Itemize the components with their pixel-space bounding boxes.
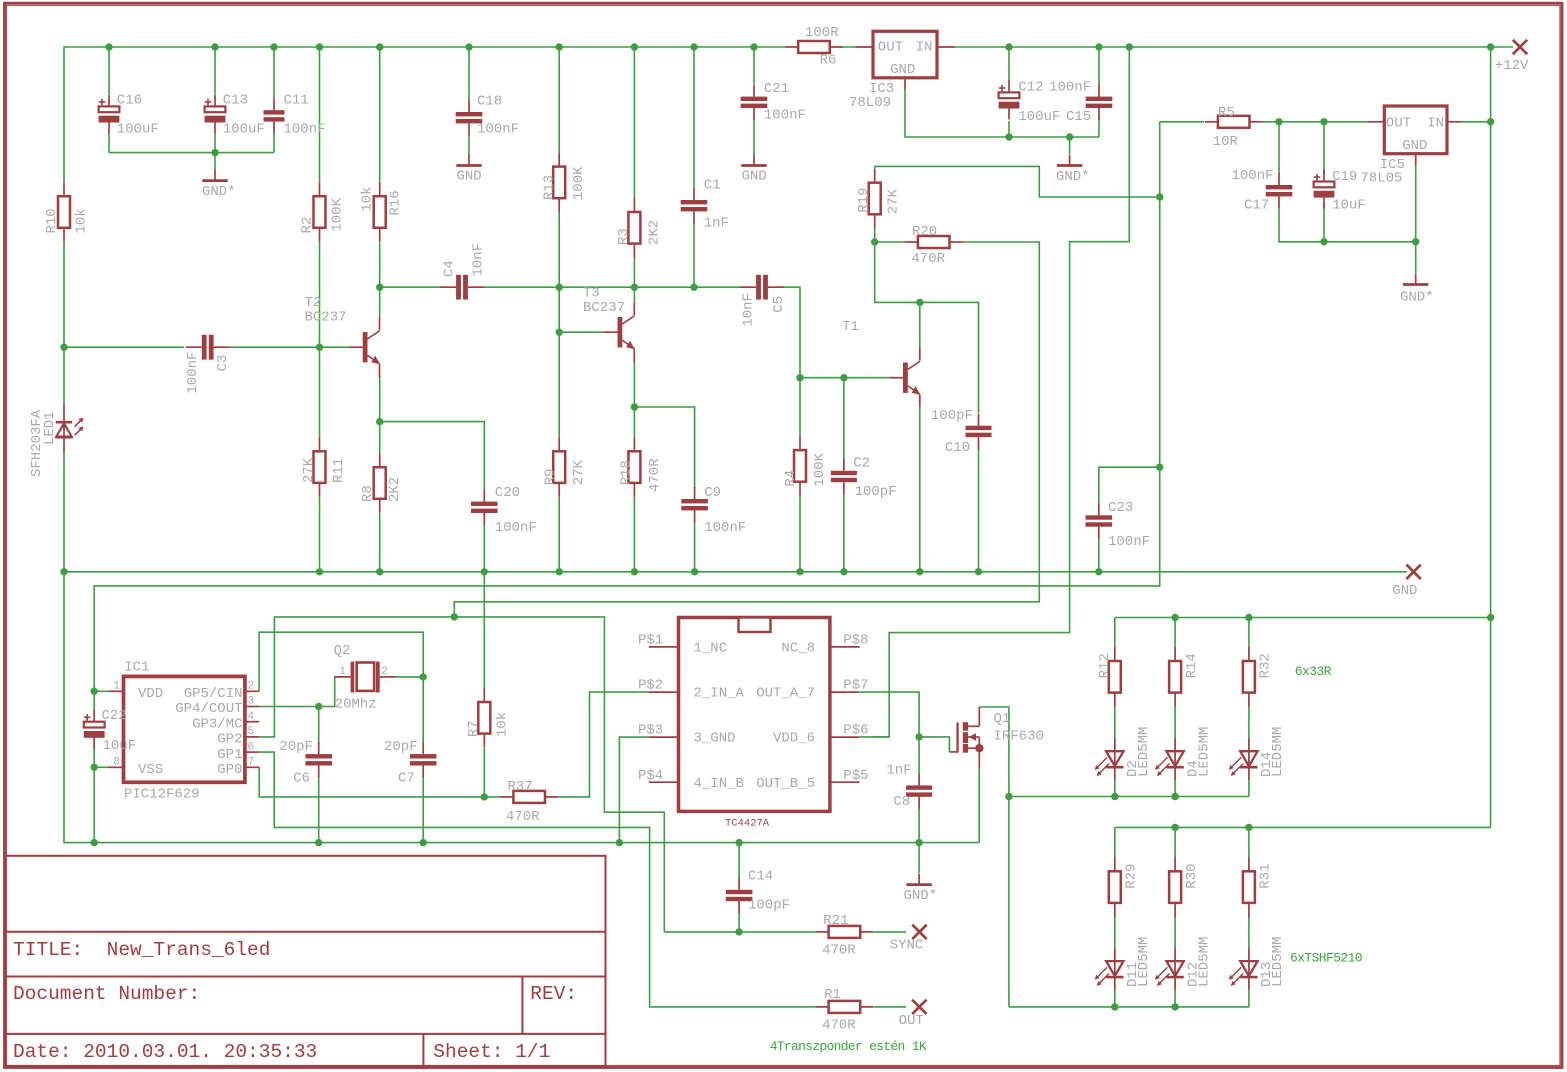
- svg-text:8: 8: [113, 757, 120, 769]
- svg-text:GP0: GP0: [217, 762, 242, 778]
- wire VSS to lower rail: [93, 767, 95, 842]
- svg-text:C17: C17: [1244, 198, 1269, 214]
- capacitor C18: [468, 100, 470, 112]
- svg-text:GND*: GND*: [1400, 290, 1434, 306]
- wire C17 top: [1278, 122, 1280, 174]
- junction dots lower rail: [91, 839, 98, 846]
- capacitor C5: [740, 286, 756, 288]
- resistor R6: [785, 46, 798, 48]
- svg-text:LED5MM: LED5MM: [1136, 937, 1152, 987]
- svg-text:SYNC: SYNC: [890, 938, 924, 954]
- wire GP2 net: [259, 617, 664, 932]
- wire GND* stub lower: [918, 843, 920, 873]
- svg-text:R2: R2: [300, 217, 316, 234]
- wire +12V top rail right: [839, 46, 856, 48]
- wire C19 top: [1323, 122, 1325, 175]
- wire P7 OUT_A net: [860, 692, 919, 737]
- LED D14: [1248, 738, 1250, 780]
- wire C15 top: [1098, 47, 1100, 85]
- LED D4: [1174, 738, 1176, 780]
- svg-text:100nF: 100nF: [764, 108, 806, 124]
- svg-text:100pF: 100pF: [931, 408, 973, 424]
- wire VDD pin: [94, 690, 109, 692]
- wire bank1 anode rail: [1115, 617, 1491, 619]
- wire C16-C13-C11 bottom bus: [109, 152, 274, 154]
- wire C14 top: [738, 843, 740, 879]
- svg-text:R12: R12: [1097, 653, 1113, 678]
- svg-text:C9: C9: [704, 485, 721, 501]
- capacitor C15: [1098, 85, 1100, 97]
- svg-text:R30: R30: [1184, 863, 1200, 888]
- svg-text:R37: R37: [508, 779, 533, 795]
- svg-text:100nF: 100nF: [495, 520, 537, 536]
- svg-text:Document Number:: Document Number:: [13, 983, 200, 1005]
- LED LED1 (SFH203FA photodiode): [63, 405, 65, 439]
- wire R8 bottom: [379, 513, 381, 572]
- svg-text:R14: R14: [1184, 653, 1200, 678]
- svg-text:20Mhz: 20Mhz: [335, 697, 377, 713]
- svg-text:R8: R8: [360, 485, 376, 502]
- svg-text:C22: C22: [102, 708, 127, 724]
- capacitor C3: [186, 346, 202, 348]
- svg-text:1nF: 1nF: [704, 216, 729, 232]
- junction dots T1: [796, 374, 803, 381]
- svg-text:470R: 470R: [822, 1018, 856, 1034]
- svg-text:3: 3: [248, 696, 255, 708]
- svg-text:P$7: P$7: [843, 678, 868, 694]
- wire bank1 column 1: [1114, 618, 1116, 649]
- junction dot emitter taps: [376, 418, 383, 425]
- junction dots main rail: [60, 568, 67, 575]
- capacitor C17: [1278, 173, 1280, 185]
- capacitor C10: [978, 414, 980, 426]
- resistor R7: [483, 688, 485, 702]
- svg-text:R29: R29: [1124, 863, 1140, 888]
- svg-text:20pF: 20pF: [279, 739, 313, 755]
- svg-text:1: 1: [113, 681, 120, 693]
- wire R9 bottom: [558, 497, 560, 572]
- wire VSS pin: [94, 766, 108, 768]
- svg-text:100nF: 100nF: [704, 520, 746, 536]
- wire +9V top rail left: [64, 47, 786, 182]
- svg-text:GND: GND: [1392, 583, 1417, 599]
- LED D12: [1174, 948, 1176, 990]
- wire T3 base riser: [558, 287, 560, 332]
- capacitor C22 (polarized): [93, 710, 95, 722]
- wire Q2 pin2: [396, 676, 424, 678]
- svg-text:LED1: LED1: [42, 411, 58, 445]
- junction dots bank2: [1171, 824, 1178, 831]
- resistor R14: [1174, 647, 1176, 661]
- svg-text:GP3/MC: GP3/MC: [192, 716, 242, 732]
- capacitor C11: [273, 98, 275, 110]
- wire R37 to IN_A: [558, 692, 649, 797]
- svg-text:T3: T3: [583, 286, 600, 302]
- transistor T2: [350, 346, 363, 348]
- LED D13: [1248, 948, 1250, 990]
- svg-text:470R: 470R: [911, 251, 945, 267]
- svg-text:C13: C13: [223, 93, 248, 109]
- wire C12 top: [1008, 47, 1010, 81]
- junction dot T3 base: [556, 329, 563, 336]
- wire bank2 column 1: [1114, 827, 1116, 858]
- wire C20 bottom: [483, 524, 485, 572]
- junction dots collector rail: [376, 284, 383, 291]
- wire R4 bottom: [799, 496, 801, 572]
- wire OUT right: [874, 1006, 907, 1008]
- svg-text:Q1: Q1: [994, 711, 1011, 727]
- wire R3 top: [633, 47, 635, 198]
- wire IC5 IN: [1461, 121, 1491, 123]
- resistor R10: [63, 182, 65, 196]
- capacitor C16 (polarized): [108, 94, 110, 106]
- transistor T3: [605, 331, 618, 333]
- svg-text:1nF: 1nF: [886, 763, 911, 779]
- transistor T1: [890, 377, 903, 379]
- svg-text:OUT: OUT: [1386, 116, 1411, 132]
- svg-text:PIC12F629: PIC12F629: [124, 787, 200, 803]
- resistor R21: [816, 931, 829, 933]
- svg-text:C6: C6: [293, 771, 310, 787]
- svg-text:100nF: 100nF: [477, 122, 519, 138]
- svg-text:4_IN_B: 4_IN_B: [694, 776, 744, 792]
- svg-text:NC_8: NC_8: [781, 641, 815, 657]
- wire C7 riser: [422, 677, 424, 743]
- wire R3 bottom: [633, 257, 635, 287]
- wire R7 top: [483, 572, 485, 688]
- wire R19 top net: [874, 166, 876, 168]
- svg-text:470R: 470R: [647, 458, 663, 492]
- svg-text:78L09: 78L09: [849, 95, 891, 111]
- pin +12V: [1513, 40, 1527, 54]
- svg-text:10nF: 10nF: [471, 243, 487, 277]
- wire C21 top: [753, 47, 755, 84]
- wire T2 collector: [379, 287, 381, 317]
- wire R16 bottom: [379, 242, 381, 287]
- svg-text:10k: 10k: [73, 208, 89, 233]
- svg-text:GND*: GND*: [202, 184, 236, 200]
- capacitor C13 (polarized): [214, 94, 216, 106]
- wire C8 bottom: [918, 808, 920, 843]
- svg-text:27K: 27K: [301, 457, 317, 483]
- wire C7 bottom: [422, 777, 424, 843]
- wire R5 left: [1160, 121, 1204, 123]
- svg-text:C12: C12: [1018, 80, 1043, 96]
- pin GND: [1406, 565, 1420, 579]
- wire T1 emitter: [919, 408, 921, 572]
- svg-text:C5: C5: [771, 296, 787, 313]
- wire C6 riser: [318, 707, 320, 744]
- svg-text:100nF: 100nF: [1232, 168, 1274, 184]
- svg-text:2K2: 2K2: [387, 477, 403, 502]
- svg-text:100pF: 100pF: [855, 484, 897, 500]
- svg-text:IN: IN: [1427, 116, 1444, 132]
- svg-text:GP4/COUT: GP4/COUT: [175, 701, 242, 717]
- svg-text:C19: C19: [1332, 169, 1357, 185]
- resistor R16: [379, 182, 381, 196]
- wire Q1 source: [978, 768, 980, 843]
- svg-text:LED5MM: LED5MM: [1196, 937, 1212, 987]
- svg-text:C15: C15: [1066, 109, 1091, 125]
- resistor R19: [874, 169, 876, 183]
- IC IC3 voltage regulator 78L09: [873, 31, 937, 78]
- junction dots bank1: [1171, 614, 1178, 621]
- wire C10 bottom: [978, 447, 980, 572]
- wire bank2 column 3: [1248, 827, 1250, 858]
- junction dots top rail: [105, 43, 112, 50]
- wire C23 link: [1099, 467, 1160, 505]
- svg-text:100R: 100R: [805, 25, 839, 41]
- wire SYNC right: [874, 931, 907, 933]
- wire T1 collector: [919, 302, 921, 347]
- svg-text:10uF: 10uF: [1332, 198, 1366, 214]
- svg-text:20pF: 20pF: [384, 739, 418, 755]
- resistor R3: [633, 198, 635, 212]
- wire bank2 column 2: [1174, 827, 1176, 858]
- svg-text:C10: C10: [945, 440, 970, 456]
- wire C16 top: [108, 47, 110, 94]
- svg-text:R16: R16: [388, 190, 404, 215]
- wire T3 emitter to R18: [633, 362, 635, 437]
- svg-text:C8: C8: [893, 794, 910, 810]
- IC IC2 TC4427A driver: [679, 618, 830, 812]
- svg-text:BC237: BC237: [305, 310, 347, 326]
- svg-text:470R: 470R: [506, 809, 540, 825]
- wire T3 base: [559, 331, 608, 333]
- svg-text:2K2: 2K2: [647, 220, 663, 245]
- wire emitter tap to C20: [380, 422, 485, 490]
- wire C15 bottom: [1098, 118, 1100, 137]
- transistor Q1 (IRF630 MOSFET): [949, 751, 957, 753]
- IC IC1 PIC12F629: [124, 676, 245, 782]
- capacitor C19 (polarized): [1323, 170, 1325, 182]
- svg-text:R13: R13: [542, 175, 558, 200]
- resistor R12: [1114, 647, 1116, 661]
- ground GND*: [1069, 155, 1071, 166]
- wire C9 bottom: [694, 522, 696, 572]
- wire collector rail y287: [380, 286, 450, 288]
- wire C1 bottom: [693, 222, 695, 288]
- svg-text:3_GND: 3_GND: [694, 731, 736, 747]
- svg-text:IN: IN: [916, 40, 933, 56]
- svg-text:2: 2: [381, 666, 388, 678]
- svg-text:R5: R5: [1218, 105, 1235, 121]
- capacitor C14: [738, 878, 740, 890]
- wire C1 top: [693, 47, 695, 188]
- wire C2 bottom: [843, 493, 845, 572]
- svg-text:100nF: 100nF: [185, 352, 201, 394]
- wire Q1 gate link: [919, 737, 949, 752]
- svg-text:100uF: 100uF: [117, 121, 159, 137]
- svg-text:C3: C3: [215, 355, 231, 372]
- wire GP4 net: [259, 677, 336, 707]
- capacitor C8: [918, 773, 920, 785]
- capacitor C21: [753, 85, 755, 97]
- wire C2 top: [843, 378, 845, 459]
- svg-text:GND: GND: [890, 62, 915, 78]
- wire R13 bottom: [558, 212, 560, 287]
- svg-text:C2: C2: [853, 456, 870, 472]
- wire C17 bottom: [1279, 209, 1416, 242]
- wire base bus C3 T2: [64, 346, 184, 348]
- svg-text:Date: 2010.03.01. 20:35:33: Date: 2010.03.01. 20:35:33: [13, 1041, 317, 1063]
- wire C23 bottom: [1098, 537, 1100, 572]
- wire R18 bottom: [633, 497, 635, 572]
- svg-text:LED5MM: LED5MM: [1270, 727, 1286, 777]
- wire +12V drop: [873, 47, 1129, 737]
- IC IC5 voltage regulator 78L05: [1384, 106, 1447, 154]
- svg-text:OUT: OUT: [899, 1013, 924, 1029]
- svg-text:REV:: REV:: [530, 983, 577, 1005]
- wire R9 top: [558, 332, 560, 437]
- wire bank2 cathode rail: [1009, 1006, 1249, 1008]
- wire C18 top: [468, 47, 470, 100]
- svg-text:10k: 10k: [360, 187, 376, 212]
- wire bank1 column 3: [1248, 618, 1250, 649]
- wire C8 top: [918, 737, 920, 774]
- svg-text:GND: GND: [742, 169, 767, 185]
- svg-text:OUT_B_5: OUT_B_5: [756, 776, 815, 792]
- wire 5V vertical: [94, 122, 1160, 692]
- svg-text:100uF: 100uF: [1018, 109, 1060, 125]
- junction dots 5V net: [1156, 193, 1163, 200]
- svg-text:R7: R7: [466, 720, 482, 737]
- ground GND: [468, 155, 470, 166]
- svg-text:C18: C18: [477, 94, 502, 110]
- resistor R29: [1114, 857, 1116, 871]
- resistor R8: [379, 453, 381, 467]
- wire +12V right column: [1490, 47, 1492, 827]
- svg-text:6: 6: [248, 741, 255, 753]
- junction dots R5 line: [1275, 118, 1282, 125]
- wire LED1 bottom: [63, 453, 65, 572]
- wire IC5 GND: [1415, 166, 1417, 273]
- svg-text:C23: C23: [1108, 500, 1133, 516]
- svg-text:T1: T1: [842, 319, 859, 335]
- wire R11 top: [319, 347, 321, 437]
- wire C13 top: [214, 47, 216, 94]
- wire C11 bottom: [273, 133, 275, 153]
- wire C19 bottom: [1323, 205, 1325, 242]
- pin SYNC: [912, 925, 926, 939]
- resistor R18: [633, 437, 635, 451]
- svg-text:GND*: GND*: [1056, 169, 1090, 185]
- wire bank1 cathode rail: [1009, 796, 1249, 798]
- svg-text:R32: R32: [1258, 653, 1274, 678]
- svg-text:C16: C16: [117, 93, 142, 109]
- svg-text:C7: C7: [398, 771, 415, 787]
- svg-text:P$4: P$4: [638, 768, 663, 784]
- svg-text:100K: 100K: [812, 452, 828, 486]
- svg-text:P$1: P$1: [638, 633, 663, 649]
- capacitor C9: [694, 487, 696, 499]
- wire C13 bottom: [214, 134, 216, 153]
- svg-text:100K: 100K: [330, 197, 346, 231]
- svg-text:GND*: GND*: [904, 888, 938, 904]
- svg-text:IC1: IC1: [124, 659, 149, 675]
- svg-text:R1: R1: [824, 987, 841, 1003]
- svg-text:OUT: OUT: [878, 40, 903, 56]
- svg-text:10nF: 10nF: [741, 293, 757, 327]
- junction dot C19 C17 bus: [1320, 238, 1327, 245]
- svg-text:C11: C11: [284, 93, 309, 109]
- capacitor C20: [483, 490, 485, 502]
- capacitor C1: [693, 188, 695, 200]
- svg-text:27K: 27K: [886, 188, 902, 214]
- svg-text:VDD: VDD: [138, 686, 163, 702]
- svg-text:5: 5: [248, 726, 255, 738]
- svg-text:C1: C1: [704, 178, 721, 194]
- svg-text:GND: GND: [1402, 138, 1427, 154]
- svg-text:P$6: P$6: [843, 723, 868, 739]
- wire R2 top: [319, 47, 321, 182]
- svg-text:VSS: VSS: [138, 762, 163, 778]
- svg-text:P$2: P$2: [638, 678, 663, 694]
- resistor R9: [558, 437, 560, 451]
- wire GND rail to lower: [64, 572, 979, 843]
- svg-text:R4: R4: [783, 470, 799, 487]
- wire C6 bottom: [318, 777, 320, 843]
- junction dot R7 R37: [481, 793, 488, 800]
- wire R7 bottom: [483, 748, 485, 797]
- wire main GND rail: [64, 571, 1407, 573]
- svg-text:100uF: 100uF: [223, 121, 265, 137]
- wire OUT line: [685, 1006, 816, 1008]
- svg-text:R20: R20: [912, 224, 937, 240]
- junction dot C14 sync: [735, 928, 742, 935]
- svg-text:P$5: P$5: [843, 768, 868, 784]
- resistor R11: [319, 437, 321, 451]
- wire P6 VDD link: [860, 736, 889, 738]
- wire T3 collector: [633, 287, 635, 302]
- resistor R30: [1174, 857, 1176, 871]
- wire C14 bottom: [738, 912, 740, 932]
- svg-text:R21: R21: [823, 913, 848, 929]
- svg-text:C14: C14: [748, 868, 773, 884]
- wire bank1 column 2: [1174, 618, 1176, 649]
- svg-text:P$3: P$3: [638, 723, 663, 739]
- LED D11: [1114, 948, 1116, 990]
- resistor R13: [558, 153, 560, 167]
- svg-text:TC4427A: TC4427A: [725, 818, 770, 830]
- wire VDD col C22: [93, 691, 95, 713]
- wire GND* stub C13: [214, 153, 216, 170]
- wire bank2 anode rail: [1115, 826, 1491, 828]
- wire T2 emitter to R8: [379, 376, 381, 453]
- ground GND: [753, 155, 755, 166]
- svg-text:R10: R10: [44, 208, 60, 233]
- svg-text:OUT_A_7: OUT_A_7: [756, 686, 815, 702]
- wire GP5 net to crystal: [259, 632, 423, 691]
- wire R13 top: [558, 47, 560, 153]
- svg-text:GP1: GP1: [217, 747, 242, 763]
- junction dots Q1: [915, 733, 922, 740]
- svg-text:6xTSHF5210: 6xTSHF5210: [1290, 951, 1362, 966]
- svg-text:2_IN_A: 2_IN_A: [694, 686, 745, 702]
- svg-text:100nF: 100nF: [284, 121, 326, 137]
- svg-text:27K: 27K: [571, 459, 587, 485]
- capacitor C12 (polarized): [1008, 80, 1010, 92]
- wire R10 bottom: [63, 242, 65, 347]
- wire R2 bottom to base bus: [319, 242, 321, 347]
- svg-text:R9: R9: [543, 468, 559, 485]
- svg-text:6x33R: 6x33R: [1295, 664, 1332, 679]
- capacitor C2: [843, 459, 845, 471]
- crystal Q2: [335, 676, 351, 678]
- svg-text:+12V: +12V: [1495, 58, 1529, 74]
- capacitor C6: [318, 742, 320, 754]
- LED D2: [1114, 738, 1116, 780]
